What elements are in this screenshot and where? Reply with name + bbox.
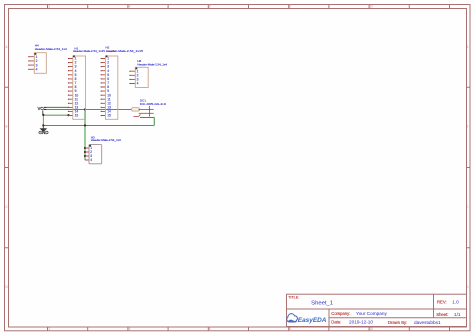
- svg-text:Header: Header: [106, 49, 116, 53]
- svg-text:8: 8: [289, 5, 291, 9]
- svg-text:4: 4: [90, 158, 92, 162]
- svg-text:GND: GND: [39, 130, 50, 135]
- svg-text:Company:: Company:: [331, 311, 350, 316]
- svg-text:Header-Male-2.54_1x4: Header-Male-2.54_1x4: [91, 138, 121, 142]
- svg-text:VCC: VCC: [38, 106, 48, 111]
- svg-text:10: 10: [369, 327, 373, 331]
- svg-text:1.0: 1.0: [452, 300, 459, 305]
- svg-text:DC-005-0A-3.0: DC-005-0A-3.0: [140, 102, 166, 106]
- svg-text:EasyEDA: EasyEDA: [298, 317, 327, 324]
- svg-text:15: 15: [75, 114, 79, 118]
- svg-text:davestubbs1: davestubbs1: [414, 320, 441, 325]
- svg-text:6: 6: [209, 327, 211, 331]
- svg-text:Header-Male-2.54_1x4: Header-Male-2.54_1x4: [137, 62, 167, 66]
- svg-text:TITLE:: TITLE:: [288, 295, 299, 299]
- svg-text:4: 4: [129, 5, 131, 9]
- svg-text:Drawn By:: Drawn By:: [388, 320, 407, 325]
- svg-text:15: 15: [107, 114, 111, 118]
- svg-text:B: B: [5, 125, 7, 129]
- svg-text:8: 8: [289, 327, 291, 331]
- svg-text:10: 10: [369, 5, 373, 9]
- svg-text:2: 2: [48, 327, 50, 331]
- svg-text:Sheet_1: Sheet_1: [311, 300, 333, 306]
- svg-text:Header-Male-2.54_1x15: Header-Male-2.54_1x15: [73, 49, 105, 53]
- svg-text:Header-Male-2.54_1x4: Header-Male-2.54_1x4: [35, 47, 67, 51]
- svg-text:4: 4: [137, 82, 139, 86]
- svg-text:Your Company: Your Company: [356, 311, 387, 316]
- svg-text:6: 6: [209, 5, 211, 9]
- svg-text:2019-12-10: 2019-12-10: [349, 319, 373, 324]
- svg-text:1/1: 1/1: [454, 312, 461, 317]
- svg-text:4: 4: [36, 68, 38, 72]
- svg-text:4: 4: [129, 327, 131, 331]
- svg-text:Sheet:: Sheet:: [436, 312, 448, 317]
- svg-text:REV:: REV:: [437, 299, 447, 304]
- svg-text:B: B: [466, 125, 468, 129]
- svg-text:2: 2: [48, 5, 50, 9]
- svg-text:Date:: Date:: [331, 319, 341, 324]
